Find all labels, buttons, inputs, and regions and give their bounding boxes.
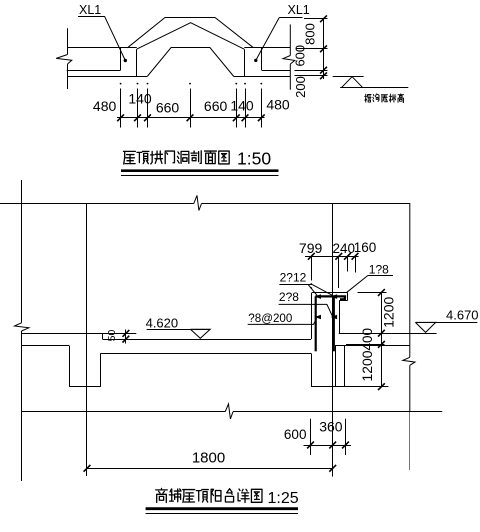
gutter level symbol (underside, triangle up) [333, 76, 364, 78]
right grid line with break [409, 203, 411, 357]
rebar left bar [315, 296, 317, 351]
right slab soffit and beam [335, 345, 410, 347]
wall cut line right [289, 24, 291, 55]
arch soffit line [137, 23, 245, 50]
svg-text:480: 480 [266, 97, 290, 113]
vertical dimension 800/600/200 [323, 19, 325, 79]
svg-text:800: 800 [303, 23, 318, 45]
label 檐沟底标高 [365, 94, 371, 102]
leader arrowheads [315, 294, 321, 299]
title 屋顶拱门洞剖面图 [124, 151, 136, 164]
dims 600/360 [304, 445, 352, 447]
svg-text:XL1: XL1 [288, 3, 310, 17]
svg-text:1800: 1800 [192, 449, 225, 466]
svg-text:1:25: 1:25 [268, 490, 299, 507]
wall cut line left [67, 28, 69, 54]
svg-text:799: 799 [299, 240, 323, 256]
svg-text:660: 660 [156, 100, 180, 116]
svg-text:400: 400 [360, 328, 375, 351]
leader XL1 left [105, 16, 126, 60]
right eave top [244, 47, 290, 49]
svg-text:600: 600 [292, 45, 307, 67]
svg-text:480: 480 [93, 98, 117, 114]
svg-text:4.620: 4.620 [146, 316, 179, 331]
title2 underline thick [146, 507, 298, 510]
top boundary line [0, 203, 194, 205]
svg-text:50: 50 [106, 330, 118, 342]
left eave top [68, 47, 137, 49]
dim 50 [125, 330, 127, 344]
svg-text:140: 140 [128, 91, 152, 107]
arch outer profile [127, 18, 253, 48]
parapet outline [311, 293, 313, 339]
svg-text:1200: 1200 [381, 297, 397, 328]
svg-text:XL1: XL1 [79, 3, 101, 17]
title 商铺屋顶阳台详图 [156, 488, 168, 502]
svg-text:1200: 1200 [359, 350, 375, 381]
arch jamb left [136, 49, 138, 76]
svg-text:1:50: 1:50 [237, 149, 271, 169]
arch inner opening [147, 48, 234, 77]
balcony floor [103, 339, 312, 341]
left slab line [67, 76, 147, 78]
right slab top [339, 333, 437, 335]
svg-text:2?12: 2?12 [280, 271, 307, 285]
rebar center bar [333, 296, 335, 351]
right eave bottom [262, 70, 291, 72]
50 step [102, 333, 104, 339]
title underline thick [121, 169, 279, 172]
svg-text:240: 240 [333, 241, 356, 256]
title underline thin [121, 175, 279, 177]
dimension chain 480/140/660/660/140/480 [117, 117, 265, 119]
svg-text:140: 140 [230, 98, 254, 114]
center grid line [332, 203, 334, 476]
leader XL1 right [256, 18, 279, 61]
svg-text:200: 200 [293, 76, 308, 98]
left eave bottom [67, 70, 121, 72]
svg-text:600: 600 [284, 427, 307, 442]
dim 1800 [87, 468, 333, 470]
wall below balcony [311, 354, 313, 387]
right beam edge [261, 48, 263, 70]
svg-text:2?8: 2?8 [279, 290, 299, 304]
right slab line [234, 76, 290, 78]
lower boundary line [22, 411, 226, 413]
arch jamb right [244, 49, 246, 76]
svg-text:660: 660 [204, 98, 228, 114]
svg-text:?8@200: ?8@200 [248, 312, 292, 325]
extension line x86 [86, 203, 88, 476]
svg-text:160: 160 [354, 240, 377, 255]
svg-text:4.670: 4.670 [446, 308, 479, 323]
svg-text:1?8: 1?8 [369, 263, 389, 277]
interior ceiling / beam / slab soffit [22, 345, 70, 347]
dims 799/240/160 [305, 256, 359, 258]
rebar top bar 2?12 [315, 295, 346, 297]
rebar hook 1?8 [344, 296, 346, 299]
left beam edge [120, 48, 122, 71]
svg-text:360: 360 [319, 419, 343, 435]
title2 underline thin [146, 513, 298, 515]
interior floor line [22, 333, 137, 335]
left grid line [21, 180, 23, 323]
dims 1200/400/1200 [381, 293, 383, 387]
